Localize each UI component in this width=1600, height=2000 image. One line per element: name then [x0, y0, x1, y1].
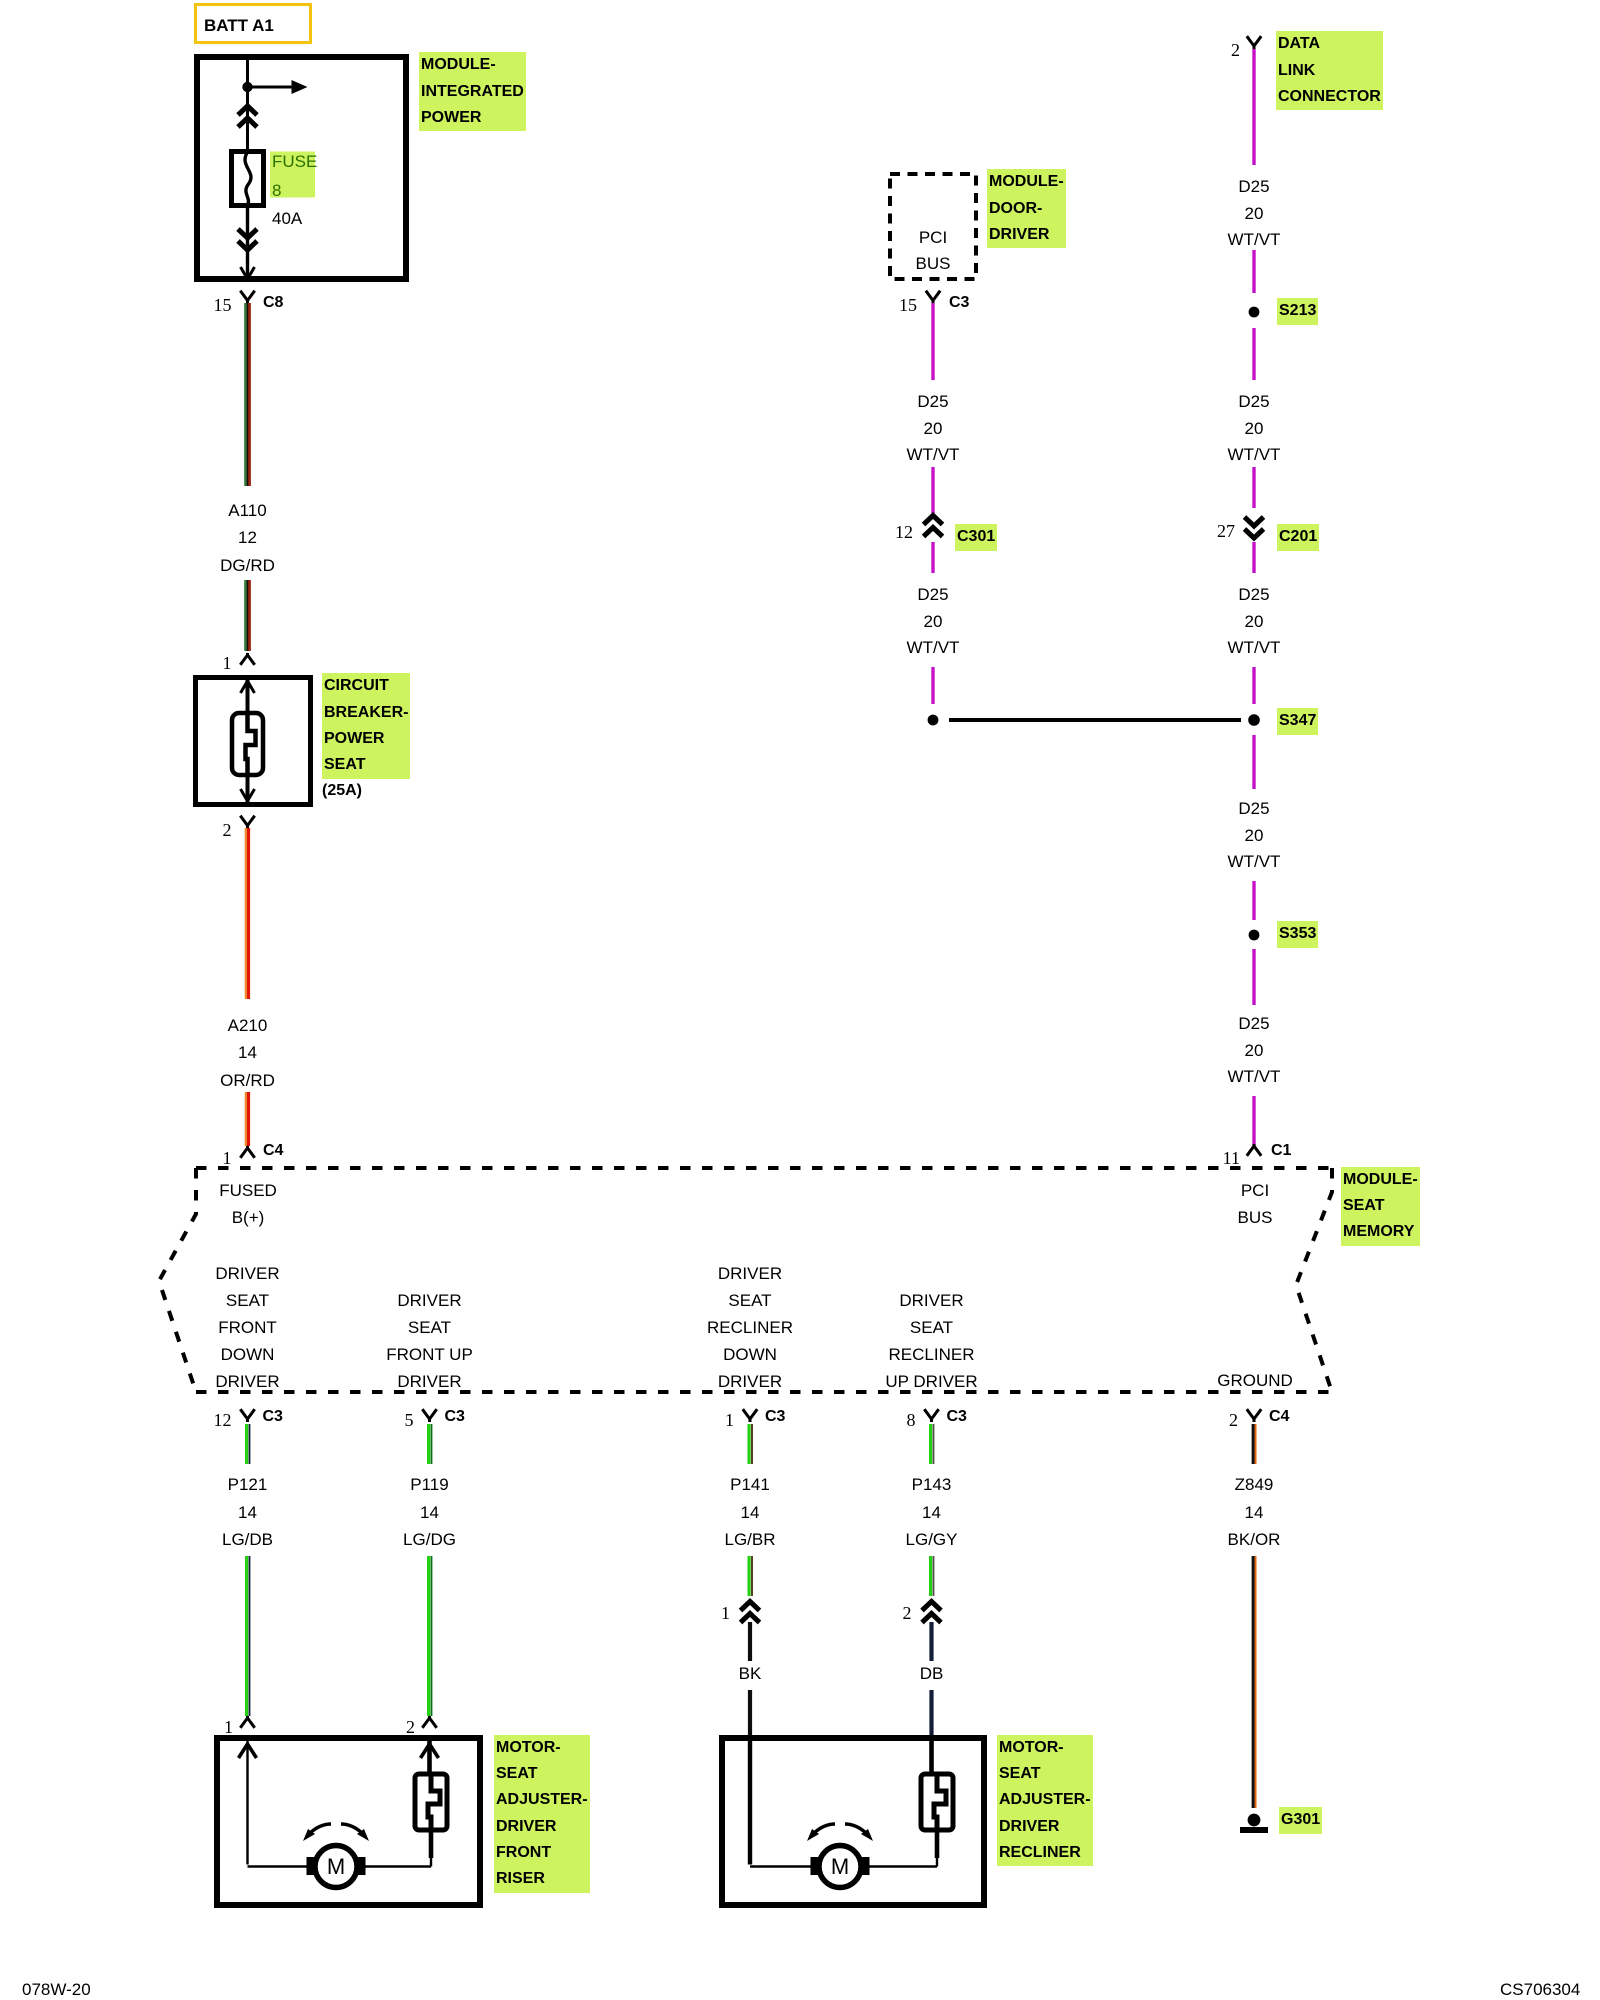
motor box MOTOR-SEAT ADJUSTER-DRIVER FRONT RISER — [217, 1738, 480, 1905]
motor M MOTOR-SEAT ADJUSTER-DRIVER FRONT RISER — [307, 1846, 366, 1888]
label wire P141 14 LG/BR — [690, 1471, 810, 1554]
connector name C4 — [263, 1138, 283, 1164]
label (25A) — [322, 778, 362, 804]
node splice S213 — [1249, 307, 1260, 318]
wire internal right entry MOTOR-SEAT ADJUSTER-DRIVER FRONT RISER — [364, 1741, 431, 1867]
label MOTOR-SEAT ADJUSTER-DRIVER FRONT RISER — [494, 1735, 590, 1893]
pin 15 C3 (door) — [877, 292, 917, 318]
inline connector chevrons col3 — [741, 1602, 760, 1623]
pin 8 C3 at x=931 — [876, 1407, 916, 1433]
label MODULE-INTEGRATED POWER — [419, 52, 526, 131]
arrow into breaker top — [241, 681, 255, 693]
wire stub below 12 C3 — [247, 1424, 250, 1464]
wire D25 WT/VT door upper — [931, 303, 934, 380]
connector name C201 — [1277, 524, 1319, 550]
power feed box BATT A1 — [196, 5, 311, 43]
connector name C3 at x=931 — [947, 1404, 967, 1430]
wire A210 14 OR/RD upper — [246, 828, 249, 999]
wire stub below 2 C4 — [1253, 1424, 1255, 1464]
label wire A210 14 OR/RD — [188, 1012, 308, 1094]
pin 12 C301 — [873, 519, 913, 545]
pin 11 C1 — [1200, 1145, 1240, 1171]
arrow exit at MIP bottom — [241, 267, 255, 279]
fuse 8 (40A) — [232, 152, 264, 206]
connector fork pin 2 — [240, 816, 254, 829]
connector name C4 at x=1254 — [1269, 1404, 1289, 1430]
wire BK upper — [748, 1622, 752, 1661]
pin function DRIVER SEAT FRONT DOWN DRIVER — [188, 1260, 308, 1395]
connector fork motor1 pin2 — [422, 1716, 436, 1728]
wire internal circuit breaker — [246, 678, 250, 804]
circuit breaker element in MOTOR-SEAT ADJUSTER-DRIVER RECLINER — [921, 1774, 953, 1830]
inline connector C301 chevrons — [924, 516, 943, 537]
wire stub below 8 C3 — [931, 1424, 934, 1464]
wire P121 LG/DB long — [247, 1556, 250, 1716]
rotation arrow MOTOR-SEAT ADJUSTER-DRIVER RECLINER — [807, 1824, 873, 1841]
wire D25 WT/VT dlc 2 — [1252, 250, 1255, 293]
label wire P143 14 LG/GY — [872, 1471, 992, 1554]
label wire Z849 14 BK/OR — [1194, 1471, 1314, 1554]
label wire D25 20 WT/VT (right 1) — [1194, 174, 1314, 253]
arrow out of breaker bottom — [241, 789, 255, 801]
connector fork pin 1 — [240, 653, 254, 665]
inline connector chevrons col4 — [922, 1602, 941, 1623]
pin function DRIVER SEAT RECLINER DOWN DRIVER — [690, 1260, 810, 1395]
circuit breaker element in MOTOR-SEAT ADJUSTER-DRIVER FRONT RISER — [415, 1774, 447, 1830]
arrow entry left MOTOR-SEAT ADJUSTER-DRIVER FRONT RISER — [239, 1744, 257, 1758]
label wire D25 20 WT/VT (door 1) — [873, 389, 993, 468]
connector name C3 at x=247 — [263, 1404, 283, 1430]
connector fork 11 C1 — [1247, 1144, 1261, 1156]
ground G301 symbol — [1240, 1814, 1268, 1833]
node splice S347 — [1248, 714, 1260, 726]
label wire A110 12 DG/RD — [188, 497, 308, 580]
connector fork 15 C3 door — [926, 291, 940, 304]
wire D25 WT/VT dlc 5 — [1252, 542, 1255, 573]
label FUSE — [272, 149, 317, 175]
pin 1 C4 — [192, 1145, 232, 1171]
pin 2 DLC — [1200, 37, 1240, 63]
wire D25 WT/VT dlc 1 — [1252, 49, 1255, 165]
svg-text:M: M — [327, 1854, 345, 1879]
label S347 — [1277, 708, 1318, 734]
pin 27 C201 — [1195, 518, 1235, 544]
pin function FUSED B(+) — [188, 1177, 308, 1231]
label wire BK — [690, 1661, 810, 1687]
label MODULE-SEAT MEMORY — [1341, 1167, 1420, 1246]
connector fork 12 C3 — [240, 1409, 254, 1422]
pin 1 motor1 — [193, 1714, 233, 1740]
drawing number CS706304 — [1500, 1977, 1580, 2000]
wire internal B+ feed — [246, 57, 249, 150]
wire P143 LG/GY stub2 — [931, 1556, 934, 1596]
circuit breaker element CB1 — [232, 713, 263, 775]
wire P119 LG/DG long — [429, 1556, 432, 1716]
wire D25 WT/VT door lower — [931, 667, 934, 704]
wire A110 12 DG/RD upper — [245, 303, 249, 486]
label wire DB — [872, 1661, 992, 1687]
label MOTOR-SEAT ADJUSTER-DRIVER RECLINER — [997, 1735, 1093, 1866]
pin 2 inline (DB) — [872, 1600, 912, 1626]
wire stub below 5 C3 — [429, 1424, 432, 1464]
label DATA LINK CONNECTOR — [1276, 31, 1383, 110]
label wire D25 20 WT/VT (right 3) — [1194, 582, 1314, 661]
connector fork 2 C4 — [1247, 1409, 1261, 1422]
pin function DRIVER SEAT FRONT UP DRIVER — [370, 1287, 490, 1395]
pin function GROUND — [1195, 1368, 1315, 1394]
pin 15 — [192, 292, 232, 318]
pin function DRIVER SEAT RECLINER UP DRIVER — [872, 1287, 992, 1395]
pin 2 motor1 — [375, 1714, 415, 1740]
arrow B+ to other circuits — [248, 80, 308, 94]
label CIRCUIT BREAKER-POWER SEAT — [322, 673, 410, 778]
label BATT A1 — [204, 13, 274, 39]
pin 1 circuit breaker — [192, 650, 232, 676]
label wire P119 14 LG/DG — [370, 1471, 490, 1554]
pin 1 inline (BK) — [690, 1600, 730, 1626]
circuit breaker box — [196, 678, 311, 805]
connector fork 15 C8 — [240, 291, 254, 304]
connector chevrons below fuse — [238, 229, 257, 250]
wire D25 WT/VT dlc 4 — [1252, 467, 1255, 508]
wire D25 WT/VT door mid — [931, 467, 934, 517]
node junction in MIP — [242, 82, 252, 92]
wire D25 WT/VT dlc 6 — [1252, 667, 1255, 704]
wire internal left entry MOTOR-SEAT ADJUSTER-DRIVER FRONT RISER — [248, 1741, 309, 1867]
wire DB lower — [929, 1690, 933, 1736]
pin 5 C3 at x=429 — [374, 1407, 414, 1433]
label wire D25 20 WT/VT (right 4) — [1194, 796, 1314, 875]
pin function PCI BUS (door) — [873, 225, 993, 278]
wire stub below 1 C3 — [749, 1424, 752, 1464]
wire DB upper — [929, 1622, 933, 1661]
connector name C3 (door) — [949, 290, 969, 316]
connector chevrons above fuse — [238, 106, 257, 127]
pin 1 C3 at x=750 — [694, 1407, 734, 1433]
wire D25 WT/VT dlc 3 — [1252, 328, 1255, 380]
arrow entry right MOTOR-SEAT ADJUSTER-DRIVER FRONT RISER — [421, 1744, 439, 1758]
svg-text:M: M — [831, 1854, 849, 1879]
node splice S353 — [1249, 930, 1260, 941]
sheet number 078W-20 — [22, 1977, 91, 2000]
wire D25 WT/VT dlc 10 — [1252, 1096, 1255, 1146]
connector name C1 — [1271, 1138, 1291, 1164]
connector fork 1 C3 — [743, 1409, 757, 1422]
connector fork 2 DLC — [1247, 36, 1261, 49]
pin 12 C3 at x=247 — [192, 1407, 232, 1433]
module box U1: MODULE-INTEGRATED POWER — [197, 57, 406, 279]
motor M MOTOR-SEAT ADJUSTER-DRIVER RECLINER — [811, 1846, 870, 1888]
connector fork pin 1 C4 — [240, 1146, 254, 1158]
wire A210 14 OR/RD lower — [246, 1092, 249, 1146]
highlight FUSE 8 — [270, 152, 315, 198]
wire Z849 BK/OR long — [1253, 1556, 1255, 1808]
label wire P121 14 LG/DB — [188, 1471, 308, 1554]
wire D25 WT/VT dlc 9 — [1252, 949, 1255, 1005]
wire P141 LG/BR stub2 — [749, 1556, 752, 1596]
wire S347 bus link — [949, 718, 1241, 722]
wire D25 WT/VT dlc 7 — [1252, 735, 1255, 789]
connector fork 5 C3 — [422, 1409, 436, 1422]
pin function PCI BUS (seat memory) — [1195, 1178, 1315, 1231]
pin 2 C4 at x=1254 — [1198, 1407, 1238, 1433]
connector name C3 at x=750 — [765, 1404, 785, 1430]
rotation arrow MOTOR-SEAT ADJUSTER-DRIVER FRONT RISER — [303, 1824, 369, 1841]
connector fork 8 C3 — [924, 1409, 938, 1422]
label 40A — [272, 206, 302, 232]
connector name C8 — [263, 290, 283, 316]
label wire D25 20 WT/VT (door 2) — [873, 582, 993, 661]
pin 2 circuit breaker — [192, 817, 232, 843]
label G301 — [1279, 1807, 1322, 1833]
connector fork motor1 pin1 — [240, 1716, 254, 1728]
wire BK lower — [748, 1690, 752, 1736]
label fuse number 8 — [272, 178, 281, 204]
connector name C3 at x=429 — [445, 1404, 465, 1430]
wire D25 WT/VT door below C301 — [931, 542, 934, 573]
wire A110 12 DG/RD lower — [245, 580, 249, 651]
wire D25 WT/VT dlc 8 — [1252, 881, 1255, 920]
module box MODULE-DOOR-DRIVER (dashed) — [890, 174, 976, 279]
label S213 — [1277, 298, 1318, 324]
wire internal left entry MOTOR-SEAT ADJUSTER-DRIVER RECLINER — [750, 1741, 812, 1867]
label MODULE-DOOR-DRIVER — [987, 169, 1066, 248]
wire internal right entry MOTOR-SEAT ADJUSTER-DRIVER RECLINER — [868, 1741, 937, 1867]
node splice left S347 — [928, 715, 939, 726]
motor box MOTOR-SEAT ADJUSTER-DRIVER RECLINER — [722, 1738, 984, 1905]
connector name C301 — [955, 524, 997, 550]
module outline MODULE-SEAT MEMORY (dashed) — [159, 1168, 1332, 1392]
inline connector C201 chevrons — [1245, 517, 1264, 538]
label S353 — [1277, 921, 1318, 947]
label wire D25 20 WT/VT (right 2) — [1194, 389, 1314, 468]
label wire D25 20 WT/VT (right 5) — [1194, 1011, 1314, 1090]
wire fuse to pin 15 — [246, 206, 249, 276]
